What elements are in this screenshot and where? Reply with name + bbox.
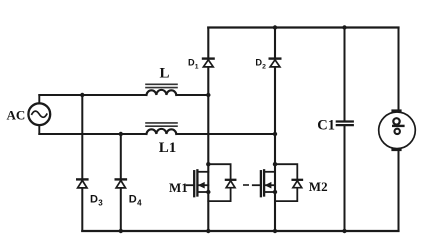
mosfet M1 body-diode branch: [208, 164, 235, 201]
wire AC source leads: [38, 95, 40, 134]
capacitor C1: [337, 122, 353, 126]
diode D2: [270, 59, 281, 67]
junction node dots: [80, 25, 347, 233]
motor inner mark lower: [395, 129, 400, 134]
svg-text:2: 2: [262, 63, 266, 70]
svg-text:4: 4: [137, 199, 142, 208]
diode D1: [203, 59, 214, 67]
svg-text:1: 1: [195, 63, 199, 70]
inductor L1 coil: [147, 129, 177, 134]
wire D1/M1 vertical: [207, 28, 209, 232]
svg-text:D: D: [129, 193, 137, 205]
svg-text:D: D: [90, 193, 98, 205]
wire D4 vertical: [120, 134, 122, 231]
svg-text:3: 3: [98, 199, 103, 208]
mosfet M1: [187, 170, 209, 196]
wire C1 branch: [344, 28, 346, 232]
inductor L coil: [147, 90, 177, 95]
wire motor branch: [398, 28, 400, 232]
wire D3 vertical: [81, 95, 83, 231]
motor bottom brush tab: [391, 148, 401, 151]
diode D4: [116, 179, 126, 188]
inductor L1 core lines: [146, 123, 177, 126]
motor inner mark upper: [393, 118, 403, 126]
motor circle: [379, 112, 416, 149]
svg-text:C1: C1: [317, 118, 335, 134]
dash between M1 and M2: [244, 184, 248, 186]
svg-text:AC: AC: [7, 107, 26, 122]
motor top brush tab: [391, 109, 401, 112]
wire D2/M2 vertical: [274, 28, 276, 232]
svg-text:M2: M2: [309, 179, 328, 194]
svg-text:L: L: [160, 65, 170, 81]
diode D3: [77, 179, 87, 188]
mosfet M2 body-diode branch: [275, 164, 302, 201]
inductor L core lines: [146, 84, 177, 87]
wire AC top line: [39, 94, 208, 96]
wire bottom rail: [82, 230, 398, 232]
wire AC bottom line: [39, 133, 275, 135]
svg-text:M1: M1: [169, 180, 188, 195]
mosfet M2: [253, 170, 275, 196]
svg-text:L1: L1: [159, 140, 177, 156]
AC sine symbol: [32, 111, 47, 117]
AC source circle: [28, 103, 50, 125]
wire top rail: [208, 26, 398, 28]
